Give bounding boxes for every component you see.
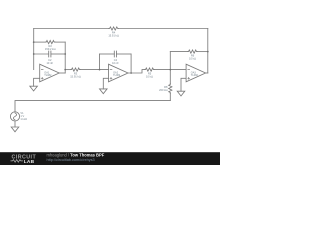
svg-text:LAB: LAB — [24, 159, 35, 165]
node junction OA2 output — [130, 72, 132, 74]
svg-text:10 kΩ: 10 kΩ — [189, 56, 196, 60]
svg-text:TL082: TL082 — [44, 74, 52, 77]
svg-text:1 kHz: 1 kHz — [20, 117, 27, 121]
wire C2 branch right — [51, 53, 65, 55]
wire R8 bottom to bottom rail — [169, 93, 171, 100]
resistor R4 — [109, 27, 119, 30]
wire R8 top — [169, 70, 171, 84]
svg-text:10 nF: 10 nF — [112, 61, 119, 65]
node junction OA2 cap left leg — [99, 69, 101, 71]
wire right vertical (OA3 out to top) — [207, 29, 209, 74]
wire R6 to output vertical — [197, 51, 208, 53]
OA3 minus pin mark — [188, 69, 190, 71]
wire OA2 cap left leg — [99, 54, 101, 70]
capacitor C4 plates — [114, 51, 116, 57]
svg-text:15.91 kΩ: 15.91 kΩ — [70, 75, 81, 79]
node junction right leg / C2 branch — [64, 53, 66, 55]
wire OA3 feedback branch — [170, 51, 187, 53]
OA2 minus pin mark — [110, 69, 112, 71]
svg-text:15.91 kΩ: 15.91 kΩ — [108, 33, 119, 37]
wire OA2 cap branch right — [117, 53, 132, 55]
op-amp OA3 triangle — [186, 64, 206, 82]
wire top-loop left vertical — [33, 29, 35, 70]
svg-text:TL082: TL082 — [191, 74, 199, 77]
svg-text:159.2 kΩ: 159.2 kΩ — [45, 47, 56, 51]
OA2 plus pin mark — [110, 77, 112, 79]
capacitor C2 plates — [49, 51, 51, 57]
svg-text:mhoaglund / Tow Thomas BPF: mhoaglund / Tow Thomas BPF — [47, 152, 105, 157]
node junction left vertical / R2 branch — [33, 41, 35, 43]
wire C2 branch left — [34, 53, 49, 55]
wire OA3 feedback left leg — [169, 52, 171, 70]
logo resistor squiggle — [11, 160, 23, 163]
wire OA2 output jog — [128, 70, 145, 73]
wire R5 to OA3 node — [154, 69, 186, 71]
node junction left vertical / C2 branch — [33, 53, 35, 55]
footer bar — [0, 152, 220, 165]
OA3 plus pin mark — [188, 77, 190, 79]
wire OA2 cap branch left — [100, 53, 115, 55]
ground (V1) — [11, 127, 19, 132]
wire OA3 output — [206, 72, 208, 74]
wire V1 to ground — [14, 121, 16, 127]
ground (OA1) — [30, 86, 38, 91]
wire left feedback right leg — [64, 42, 66, 73]
node junction OA3 input — [169, 69, 171, 71]
OA3 plus input wire to ground — [181, 78, 186, 91]
op-amp OA2 triangle — [109, 64, 129, 82]
svg-text:10 kΩ: 10 kΩ — [146, 75, 153, 79]
OA1 plus input wire to ground — [34, 78, 40, 86]
wire top left segment — [34, 28, 109, 30]
wire OA2 cap right leg — [130, 54, 132, 73]
svg-text:200 kΩ: 200 kΩ — [159, 88, 167, 92]
OA2 plus input wire to ground — [103, 78, 108, 89]
wire R2 branch right — [55, 41, 65, 43]
resistor R2 — [45, 41, 55, 44]
ground (OA3) — [177, 91, 185, 96]
op-amp OA1 triangle — [40, 64, 60, 82]
ground (OA2) — [100, 89, 108, 94]
svg-text:10 nF: 10 nF — [46, 61, 53, 65]
wire R3 to OA2 minus input — [80, 69, 108, 71]
resistor R8 (vertical) — [169, 84, 172, 94]
voltage source V1 circle — [10, 112, 19, 121]
wire bottom rail — [15, 101, 170, 112]
wire R2 branch left — [34, 41, 46, 43]
wire OA1 out to R3 — [65, 69, 71, 71]
resistor R3 — [71, 68, 81, 71]
resistor R5 — [145, 68, 155, 71]
OA1 minus pin mark — [41, 69, 43, 71]
resistor R6 — [188, 50, 198, 53]
node junction OA3 output / R6 — [207, 51, 209, 53]
V1 sine symbol — [13, 113, 16, 120]
svg-text:http://circuitlab.com/c/rehys3: http://circuitlab.com/c/rehys3 — [47, 158, 95, 162]
wire OA1 output — [59, 72, 65, 74]
wire top right segment — [118, 28, 207, 30]
node junction OA1 output — [64, 69, 66, 71]
OA1 plus pin mark — [41, 77, 43, 79]
svg-text:TL082: TL082 — [113, 74, 121, 77]
